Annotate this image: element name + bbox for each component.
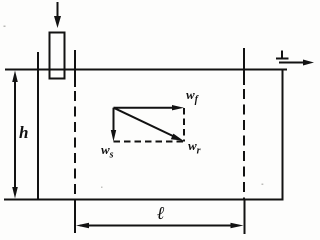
l dimension line <box>80 225 239 227</box>
svg-text:ℓ: ℓ <box>157 203 165 223</box>
outlet weir line (dashed) <box>243 89 245 199</box>
water surface line <box>5 69 287 71</box>
dashed bottom of vector rectangle <box>114 141 185 143</box>
scan speck <box>4 26 6 28</box>
scan speck <box>101 187 103 189</box>
l dimension extension line left <box>74 200 76 233</box>
inflow arrow <box>57 2 59 18</box>
l dimension extension line right <box>244 199 246 234</box>
tank bottom <box>4 199 284 201</box>
right baffle wall (solid top) <box>74 50 76 87</box>
vector w_r (diagonal) <box>114 108 175 137</box>
svg-text:h: h <box>19 123 28 142</box>
right wall <box>282 70 284 200</box>
scan speck <box>262 184 264 186</box>
vector w_f (horizontal) <box>114 107 177 109</box>
h dimension line <box>14 76 16 193</box>
outlet weir line (solid top) <box>243 48 245 85</box>
water level symbol <box>281 51 283 59</box>
left baffle wall <box>37 52 39 200</box>
dashed vertical of vector rectangle <box>183 108 185 142</box>
inlet pipe <box>50 33 65 79</box>
right baffle wall (dashed) <box>74 91 76 199</box>
vector w_s (vertical) <box>113 108 115 133</box>
outflow arrow <box>279 62 306 64</box>
